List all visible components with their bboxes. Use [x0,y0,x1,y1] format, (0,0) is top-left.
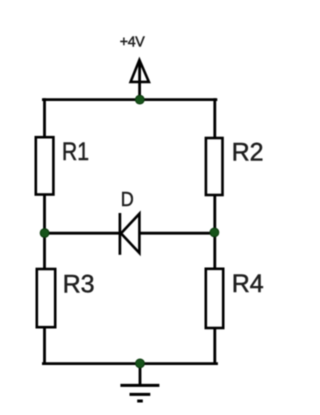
wire left vertical branch [43,100,46,364]
ground symbol [120,385,159,401]
wire ground stub [139,364,142,385]
wire bottom rail [43,362,216,365]
node ground junction [136,359,145,368]
svg-text:R1: R1 [62,137,89,165]
node left bridge junction [40,229,49,238]
diode D cathode bar [119,213,122,255]
resistor R3 [37,269,55,327]
svg-text:+4V: +4V [120,34,145,50]
svg-text:D: D [121,189,134,211]
node supply junction [135,95,144,104]
power symbol +4V arrow [131,60,149,82]
wire right vertical branch [213,100,216,364]
svg-text:R3: R3 [63,271,95,299]
resistor R1 [36,137,54,194]
wire +4V supply stub [138,63,141,100]
resistor R2 [206,138,223,195]
wire top rail [43,98,216,101]
wire middle right segment [139,232,214,235]
svg-text:R2: R2 [232,139,264,167]
svg-text:R4: R4 [232,270,264,298]
node right bridge junction [210,228,219,237]
resistor R4 [206,269,223,328]
diode D triangle [121,214,139,253]
wire middle left segment [45,232,120,235]
